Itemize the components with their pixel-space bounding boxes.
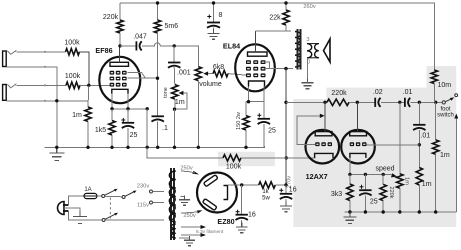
12AX7 cathode B: [350, 153, 366, 158]
wire: tremolo ground rail: [345, 211, 457, 213]
resistor 3k3 (oscillator cathode): [347, 174, 353, 212]
arrow: return up: [454, 114, 458, 119]
wire: cathode B down: [349, 158, 351, 175]
EF86 grid g2 row: [110, 77, 127, 81]
svg-text:250v: 250v: [180, 166, 192, 172]
svg-text:100k: 100k: [65, 73, 81, 80]
svg-text:1m: 1m: [404, 177, 410, 185]
EL84 anode plate: [248, 52, 268, 56]
capacitor .01 (shunt): [413, 125, 425, 130]
svg-text:25: 25: [130, 132, 138, 139]
wire: filament taps: [181, 226, 201, 228]
svg-text:25: 25: [268, 128, 276, 135]
12AX7 plate A: [315, 132, 332, 136]
EL84 cathode: [249, 81, 265, 87]
svg-text:230v: 230v: [137, 184, 149, 190]
resistor 150 2w (EL84 cathode): [243, 102, 249, 148]
capacitor 16uF (smoothing): [279, 188, 292, 199]
resistor 220k (oscillator plate load): [327, 99, 349, 105]
svg-text:100k: 100k: [64, 40, 80, 47]
node: grid junction: [87, 84, 90, 87]
svg-text:1k5: 1k5: [95, 127, 106, 134]
speaker cone: [324, 39, 331, 62]
svg-text:12AX7: 12AX7: [306, 172, 328, 181]
svg-text:150 2w: 150 2w: [236, 112, 242, 130]
capacitor .047 (coupling): [136, 41, 141, 50]
wire: grid wire to EF86: [80, 84, 110, 86]
svg-text:.047: .047: [133, 33, 147, 40]
tube EZ80 rectifier: [197, 173, 237, 213]
svg-text:220k: 220k: [388, 187, 394, 199]
wire: 25uF lead: [364, 174, 366, 190]
resistor 100k (input 2 grid stopper): [66, 82, 80, 88]
wire: jack2 tip: [17, 84, 67, 86]
tube EL84 pentode: [235, 44, 275, 91]
wire: EL84 bypass cap lead: [263, 102, 265, 119]
wire: screen to OT primary bottom: [266, 68, 293, 70]
node: rail junctions: [156, 1, 159, 4]
svg-text:1m: 1m: [175, 99, 185, 106]
EZ80 plate 1: [204, 175, 218, 187]
wire: tremolo feed line: [286, 101, 327, 103]
capacitor .001 (tone): [168, 63, 180, 68]
svg-text:EZ80: EZ80: [217, 217, 234, 226]
wire: tone wiper loop: [175, 93, 187, 109]
potentiometer 1m (tone): [172, 85, 178, 110]
wire: cathode legs: [111, 94, 113, 109]
power transformer HT secondary: [169, 171, 175, 222]
tube 12AX7 triode B: [341, 130, 375, 164]
EL84 grid g2 row: [246, 67, 266, 71]
mains switch pole 2: [102, 213, 118, 222]
svg-text:220k: 220k: [103, 14, 119, 21]
wire: plug earth: [64, 208, 80, 212]
wire: plate / 22k / OT primary node: [256, 30, 292, 32]
arrow to EZ80 plate 2: [197, 210, 203, 213]
wire: tone pot to ground: [174, 109, 176, 147]
wire: 270v feed: [285, 69, 287, 185]
svg-text:tone: tone: [163, 87, 169, 98]
12AX7 cathode A: [315, 153, 333, 158]
svg-text:EF86: EF86: [95, 46, 112, 55]
ground (smoothing cap): [280, 202, 292, 212]
capacitor 25uF (oscillator bypass): [359, 185, 371, 196]
wire: live via fuse: [69, 196, 85, 205]
wire: g3 link: [128, 73, 146, 79]
12AX7 grid B row: [350, 142, 367, 146]
wire: switch link: [105, 195, 122, 198]
wire: hop over screen line: [142, 43, 174, 46]
svg-text:250v: 250v: [183, 213, 195, 219]
12AX7 grid A row: [315, 142, 332, 146]
resistor 1m (foot switch bleed): [433, 102, 439, 212]
ground (filament winding): [179, 237, 190, 239]
EF86 cathode: [112, 89, 128, 94]
input jack J2: [3, 84, 17, 101]
tremolo section shaded panel: [293, 66, 456, 227]
resistor 100k (ground link): [223, 155, 241, 161]
power transformer filament winding: [171, 224, 176, 238]
wire: to EL84 grid: [228, 74, 247, 76]
voltage selector lever: [122, 190, 137, 198]
speed wiper arrow: [391, 173, 394, 176]
wire: neutral leg2: [69, 211, 103, 220]
mains switch pole 1: [102, 189, 118, 198]
ground (tremolo rail): [343, 212, 356, 223]
node: EF86 plate node: [118, 44, 121, 47]
potentiometer 1m (volume): [195, 67, 201, 148]
svg-text:16: 16: [248, 212, 256, 219]
wire: contacts to primary: [153, 191, 165, 193]
ground (mains earth): [73, 211, 87, 224]
resistor 22k (B+ dropper): [283, 3, 289, 31]
wire: line to .02: [349, 101, 375, 103]
svg-text:5w: 5w: [262, 196, 270, 202]
svg-text:1A: 1A: [84, 187, 91, 193]
ground (speaker return): [301, 78, 313, 89]
EZ80 cathode: [224, 186, 228, 200]
svg-text:260v: 260v: [303, 4, 315, 10]
EF86 grid g1 row: [110, 83, 127, 87]
capacitor .01 (series): [405, 98, 410, 107]
svg-text:3: 3: [306, 37, 309, 43]
capacitor .02: [375, 98, 380, 107]
resistor 1m (grid leak): [85, 107, 91, 147]
svg-text:.01: .01: [403, 89, 413, 96]
wire: 8uF cap lead: [213, 3, 215, 23]
svg-text:1k: 1k: [262, 189, 269, 195]
output transformer secondary: [307, 44, 312, 58]
wire: .001 tap: [173, 46, 175, 63]
svg-text:foot: foot: [440, 106, 450, 112]
input jack J1: [3, 50, 17, 66]
svg-text:100k: 100k: [226, 164, 242, 171]
svg-text:.02: .02: [373, 89, 383, 96]
svg-text:6k8: 6k8: [213, 64, 224, 71]
svg-text:speed: speed: [375, 166, 394, 173]
ground (filament): [184, 236, 195, 246]
svg-text:8: 8: [219, 12, 223, 19]
wire: g2 to screen node: [128, 77, 158, 79]
resistor 220k (EF86 plate load): [117, 3, 123, 46]
output transformer primary: [295, 32, 301, 68]
ground (reservoir cap): [236, 223, 248, 233]
wire: bus drop to ground rail: [146, 109, 148, 148]
svg-text:6.3v filament: 6.3v filament: [196, 229, 224, 235]
svg-text:10m: 10m: [438, 82, 452, 89]
resistor 6k8 (EL84 grid stopper): [213, 70, 228, 76]
wire: grid B out: [367, 144, 420, 146]
wire: EL84 cathode bus: [246, 101, 264, 103]
EL84 grid g1 row: [246, 73, 266, 77]
svg-text:220k: 220k: [331, 90, 347, 97]
tube EF86 pentode: [99, 57, 140, 103]
speaker voice coil: [315, 44, 319, 58]
wire: plate to coupling cap: [120, 45, 136, 47]
svg-text:115v: 115v: [137, 202, 149, 208]
wire: 100k-1 to grid node: [80, 52, 89, 86]
wire: EL84 cathode legs: [248, 87, 250, 102]
EF86 grid g3 row: [110, 71, 127, 75]
power transformer primary: [169, 187, 175, 220]
wire: foot switch return: [455, 117, 457, 212]
capacitor 25uF (EF86 cathode bypass): [121, 118, 134, 128]
resistor 5m6 (EF86 screen feed): [154, 3, 160, 46]
shaded highlight box around 100k ground-link resistor: [218, 152, 275, 166]
output transformer core: [297, 29, 299, 70]
wire: g3 link: [266, 62, 270, 69]
capacitor 16uF (reservoir): [236, 210, 248, 220]
wire: plate A lead: [324, 102, 326, 131]
wire: cap lead: [127, 109, 129, 123]
resistor 10m (tremolo feed): [431, 70, 437, 102]
fuse 1A: [84, 193, 97, 198]
resistor 1k5 (EF86 cathode): [109, 109, 115, 148]
ground (HT centre tap): [179, 196, 190, 206]
tone wiper arrow: [179, 91, 184, 95]
selector contact 115v: [150, 201, 153, 204]
svg-text:16: 16: [289, 187, 297, 194]
svg-text:25: 25: [370, 199, 378, 206]
wire: secondary to speaker: [307, 43, 319, 45]
wire: EL84 plate lead: [255, 31, 257, 52]
wire: HT top 250v: [181, 170, 190, 173]
wire: cathode bus: [112, 108, 147, 110]
12AX7 plate B: [350, 132, 367, 136]
svg-text:3k3: 3k3: [331, 191, 342, 198]
wire: HT centre tap ground: [181, 196, 185, 198]
EL84 grid g3 row: [246, 60, 266, 64]
wire: jack1 sleeve: [7, 67, 57, 148]
wire: jack2 sleeve: [7, 100, 89, 102]
wire: line to foot switch: [411, 101, 442, 103]
wire: screen dropper vertical: [157, 46, 159, 116]
svg-text:.01: .01: [420, 133, 430, 140]
capacitor 25uF (EL84 cathode bypass): [257, 113, 270, 124]
wire: EZ80 cathode out: [228, 184, 259, 186]
wire: secondary 0 to ground: [307, 58, 309, 79]
power transformer core: [170, 168, 172, 240]
resistor 100k (input 1 grid stopper): [66, 49, 80, 55]
wire: grid A feedback loop: [297, 116, 321, 145]
volume wiper arrow: [203, 71, 208, 75]
resistor 220k (oscillator): [380, 174, 386, 212]
svg-text:volume: volume: [199, 81, 222, 88]
ground (main rail): [49, 147, 64, 160]
svg-text:EL84: EL84: [223, 42, 240, 51]
selector contact 230v: [150, 190, 153, 193]
wire: 16uF lead: [241, 185, 243, 215]
switch gang dashed link: [109, 198, 111, 219]
svg-text:5m6: 5m6: [165, 23, 179, 30]
wire: .01 shunt lead: [418, 102, 420, 125]
resistor 1k 5w (smoothing): [259, 182, 276, 188]
wire: ground link cont.: [241, 157, 316, 159]
wire: ground link to tremolo: [147, 147, 223, 158]
wire: fuse to switch: [97, 195, 102, 197]
resistor 1m (tremolo network shunt): [416, 168, 422, 213]
svg-text:.1: .1: [162, 125, 168, 132]
EZ80 plate 2: [203, 199, 217, 211]
svg-text:1m: 1m: [72, 112, 82, 119]
svg-text:1m: 1m: [440, 152, 450, 159]
ground (8uF cap): [208, 29, 220, 39]
wire: to 270v node: [275, 184, 286, 186]
tube 12AX7 triode A: [306, 130, 340, 164]
wire: cathode bus: [350, 173, 391, 175]
svg-text:.001: .001: [177, 70, 191, 77]
potentiometer 1m (speed): [397, 102, 403, 212]
wire: main ground rail: [44, 130, 264, 147]
wire: plate B lead: [356, 102, 358, 131]
capacitor 8uF (filter): [207, 15, 220, 28]
wire: grid leak drop: [87, 85, 90, 107]
wire: line to .01: [381, 101, 404, 103]
foot switch: [442, 94, 457, 104]
wire: HT bottom 250v: [181, 212, 192, 215]
svg-text:switch: switch: [437, 113, 454, 119]
capacitor .1 (screen bypass): [152, 116, 164, 121]
svg-text:1m: 1m: [422, 181, 432, 188]
wire: to volume pot: [174, 46, 198, 67]
mains plug: [58, 202, 69, 215]
wire: 260v top rail: [120, 3, 434, 70]
arrow to EZ80 plate 1: [192, 171, 199, 175]
wire: 16uF-2 lead: [285, 185, 287, 194]
svg-text:22k: 22k: [269, 15, 281, 22]
wire: neutral to primary: [105, 219, 164, 221]
wire: EF86 plate lead: [118, 46, 120, 62]
wire: jack1 tip: [17, 51, 66, 53]
EF86 anode plate: [110, 62, 129, 66]
arrow: feedback: [320, 114, 325, 118]
